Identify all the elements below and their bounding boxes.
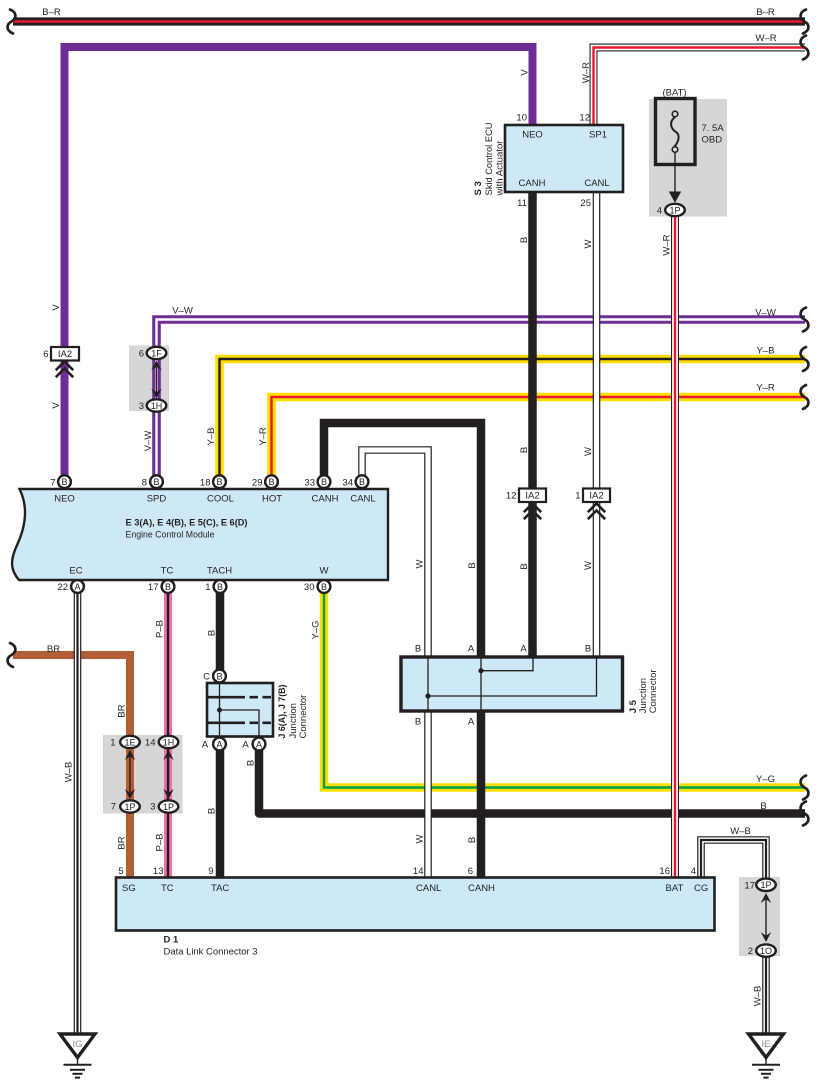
- svg-text:B: B: [61, 477, 67, 487]
- J6 internal bus bar 1: [207, 696, 273, 699]
- arrow between 1H and 1P: [163, 750, 173, 799]
- svg-text:BR: BR: [117, 704, 128, 717]
- ECM pin 1 B circle: [214, 580, 227, 593]
- connector 1H pin 3 oval: [147, 399, 167, 411]
- wire B-R top bus: [13, 17, 805, 25]
- svg-text:18: 18: [200, 478, 211, 489]
- connector IA2 pin 1 chevron: [588, 504, 605, 520]
- svg-text:2: 2: [748, 946, 753, 957]
- break symbol BR left: [8, 643, 16, 667]
- wire W-B from connector 1O to ground IE: [762, 955, 770, 1034]
- svg-text:B: B: [519, 237, 530, 243]
- break symbol B right: [801, 802, 809, 826]
- svg-text:A: A: [216, 739, 222, 749]
- svg-text:BAT: BAT: [666, 883, 684, 894]
- J5 junction dot A: [478, 668, 483, 673]
- svg-text:1: 1: [575, 491, 580, 502]
- svg-text:V–W: V–W: [143, 431, 154, 452]
- svg-text:IA2: IA2: [525, 491, 539, 502]
- svg-text:CANH: CANH: [468, 883, 495, 894]
- arrow between 1E and 1P: [125, 750, 135, 799]
- wire B TACH from ECM pin 1 to J6 pin C and J6 pin A to D1 pin 9: [216, 592, 225, 879]
- svg-text:14: 14: [413, 866, 424, 877]
- svg-text:12: 12: [506, 491, 517, 502]
- svg-text:IA2: IA2: [589, 491, 603, 502]
- svg-text:Connector: Connector: [298, 695, 309, 739]
- svg-text:IG: IG: [72, 1039, 82, 1050]
- svg-text:9: 9: [208, 866, 213, 877]
- wire Y-G from ECM pin 30 W to right edge: [324, 592, 805, 788]
- svg-text:P–B: P–B: [155, 620, 166, 638]
- svg-text:B: B: [415, 644, 421, 655]
- svg-text:30: 30: [304, 582, 315, 593]
- svg-text:4: 4: [691, 866, 696, 877]
- svg-text:B: B: [585, 644, 591, 655]
- svg-text:B: B: [467, 562, 478, 568]
- ECM pin 30 B circle: [318, 580, 331, 593]
- connector 1O pin 2 oval: [756, 944, 776, 956]
- svg-text:IE: IE: [762, 1039, 771, 1050]
- gray panel fuse area: [649, 99, 727, 217]
- gray panel connectors 1P/1O: [739, 877, 780, 956]
- svg-text:W–B: W–B: [730, 826, 751, 837]
- svg-text:1P: 1P: [760, 880, 771, 890]
- svg-text:B: B: [467, 837, 478, 843]
- svg-text:W: W: [583, 447, 594, 456]
- svg-text:11: 11: [517, 198, 527, 209]
- svg-text:D 1: D 1: [164, 935, 180, 946]
- svg-text:B: B: [246, 760, 257, 766]
- fuse 7.5A OBD box: [656, 99, 696, 165]
- break symbol W-R right: [801, 36, 809, 60]
- svg-text:CANL: CANL: [416, 883, 441, 894]
- wire W-B from D1 pin 4 CG to connector 1P: [701, 840, 766, 879]
- gray panel connectors 1E/1H/1P/1P: [103, 735, 183, 814]
- svg-text:B: B: [216, 671, 222, 681]
- junction connector J5 box: [401, 657, 623, 711]
- connector IA2 pin 12 chevron: [524, 504, 541, 520]
- wire B CANH from ECM pin 33 to J5 and D1 pin 6: [324, 423, 481, 879]
- wire W-R from fuse connector 1P to D1 pin 16 BAT: [671, 214, 679, 879]
- break symbol Y-R right: [801, 385, 809, 409]
- wire W-B from ECM pin 22 EC to ground IG: [74, 592, 82, 1034]
- svg-text:10: 10: [516, 113, 527, 124]
- svg-text:B: B: [359, 477, 365, 487]
- Data Link Connector 3 box D1: [116, 878, 715, 931]
- svg-text:OBD: OBD: [702, 135, 723, 146]
- svg-text:B: B: [321, 582, 327, 592]
- svg-text:W–R: W–R: [662, 234, 673, 255]
- svg-text:25: 25: [580, 198, 591, 209]
- J6 pin C B circle: [213, 670, 226, 683]
- svg-text:W: W: [320, 566, 329, 577]
- svg-text:Data Link Connector 3: Data Link Connector 3: [164, 947, 258, 958]
- svg-text:HOT: HOT: [262, 494, 282, 505]
- svg-text:A: A: [468, 717, 475, 728]
- svg-text:1H: 1H: [151, 401, 163, 411]
- break symbol Y-G right: [801, 776, 809, 800]
- svg-text:BR: BR: [117, 836, 128, 849]
- svg-text:12: 12: [579, 113, 590, 124]
- connector IA2 pin 1 box: [583, 489, 610, 503]
- svg-text:Y–G: Y–G: [311, 620, 322, 639]
- svg-text:B: B: [216, 477, 222, 487]
- svg-text:SP1: SP1: [589, 130, 607, 141]
- ECM pin 8 B circle: [150, 475, 163, 488]
- break symbol B-R left: [8, 10, 16, 34]
- svg-text:CG: CG: [694, 883, 708, 894]
- ECM pin 18 B circle: [213, 475, 226, 488]
- wire W CANL from Skid ECU pin 25 to J5: [593, 190, 601, 659]
- connector 1P pin 7 oval: [120, 800, 140, 812]
- svg-text:B: B: [217, 582, 223, 592]
- wire BR from left edge to D1 pin 5 SG: [13, 655, 130, 879]
- svg-text:Y–B: Y–B: [206, 428, 217, 446]
- svg-text:1O: 1O: [760, 946, 772, 956]
- svg-text:CANH: CANH: [312, 494, 339, 505]
- svg-text:33: 33: [304, 478, 315, 489]
- svg-text:Y–G: Y–G: [756, 774, 775, 785]
- svg-text:Connector: Connector: [648, 669, 659, 713]
- svg-text:14: 14: [145, 738, 156, 749]
- J6 internal link C-A: [220, 683, 260, 737]
- svg-text:A: A: [202, 740, 209, 751]
- svg-text:B: B: [207, 630, 218, 636]
- svg-text:A: A: [74, 582, 80, 592]
- connector IA2 pin 6 box: [51, 347, 79, 361]
- svg-text:W: W: [583, 561, 594, 570]
- svg-text:A: A: [468, 644, 475, 655]
- svg-text:6: 6: [139, 349, 144, 360]
- svg-text:V: V: [51, 402, 62, 409]
- wire Y-B from ECM pin 18 COOL to right edge: [220, 359, 806, 476]
- svg-text:B: B: [165, 582, 171, 592]
- svg-text:A: A: [520, 644, 527, 655]
- svg-text:B: B: [268, 477, 274, 487]
- svg-text:W: W: [583, 239, 594, 248]
- svg-text:1E: 1E: [124, 737, 135, 747]
- svg-text:BR: BR: [47, 644, 60, 655]
- wire V from ECM pin 7 NEO to Skid ECU pin 10 NEO: [65, 47, 533, 476]
- svg-text:TAC: TAC: [211, 883, 229, 894]
- ECM pin 7 B circle: [58, 475, 71, 488]
- svg-text:3: 3: [150, 802, 155, 813]
- svg-text:CANL: CANL: [350, 494, 375, 505]
- svg-text:13: 13: [153, 866, 164, 877]
- svg-text:B: B: [321, 477, 327, 487]
- svg-text:IA2: IA2: [58, 349, 72, 360]
- svg-text:with Actuator: with Actuator: [495, 141, 506, 197]
- svg-text:1H: 1H: [163, 737, 175, 747]
- ground IE: [749, 1034, 784, 1078]
- connector IA2 pin 12 box: [519, 489, 546, 503]
- ECM pin 22 A circle: [71, 580, 84, 593]
- svg-text:6: 6: [468, 866, 473, 877]
- svg-text:C: C: [203, 672, 210, 683]
- connector 1P pin 17 oval: [756, 879, 776, 891]
- gray panel connector 1F/1H: [129, 346, 169, 412]
- svg-text:B: B: [153, 477, 159, 487]
- connector 1E pin 1 oval: [120, 736, 140, 748]
- fuse element: [671, 111, 678, 152]
- svg-text:COOL: COOL: [207, 494, 234, 505]
- svg-text:SG: SG: [122, 883, 136, 894]
- svg-text:E 3(A), E 4(B), E 5(C), E 6(D): E 3(A), E 4(B), E 5(C), E 6(D): [126, 518, 248, 529]
- svg-text:Y–R: Y–R: [756, 383, 775, 394]
- svg-text:J 6(A), J 7(B): J 6(A), J 7(B): [277, 685, 288, 739]
- svg-text:7. 5A: 7. 5A: [702, 123, 725, 134]
- svg-text:EC: EC: [69, 566, 82, 577]
- svg-text:1F: 1F: [151, 348, 162, 358]
- arrow between 1F and 1H: [151, 361, 161, 399]
- svg-text:1P: 1P: [163, 802, 174, 812]
- J6 junction dot: [217, 708, 222, 713]
- svg-text:4: 4: [657, 206, 662, 217]
- svg-text:1P: 1P: [124, 802, 135, 812]
- wire B CANH from Skid ECU pin 11 to J5: [528, 190, 537, 659]
- Skid Control ECU box S3: [505, 125, 623, 192]
- wire P-B from ECM pin 17 TC to D1 pin 13: [164, 592, 172, 879]
- svg-text:3: 3: [139, 401, 144, 412]
- svg-text:17: 17: [744, 880, 755, 891]
- J6 pin A circle left: [213, 738, 226, 751]
- svg-text:17: 17: [148, 582, 159, 593]
- svg-text:V–W: V–W: [172, 306, 193, 317]
- svg-text:W: W: [415, 834, 426, 843]
- break symbol V-W right: [801, 308, 809, 332]
- svg-text:W–B: W–B: [64, 762, 75, 783]
- break symbol Y-B right: [801, 347, 809, 371]
- svg-text:P–B: P–B: [155, 834, 166, 852]
- svg-text:SPD: SPD: [147, 494, 167, 505]
- svg-text:B: B: [519, 447, 530, 453]
- ECM pin 29 B circle: [265, 475, 278, 488]
- J5 junction dot B: [425, 693, 430, 698]
- wire B from J6 pin A to right edge: [259, 749, 805, 814]
- svg-text:A: A: [256, 739, 262, 749]
- connector 1F pin 6 oval: [147, 347, 167, 359]
- J5 internal link CANL B-B: [428, 657, 597, 711]
- arrow between 1P and 1O: [761, 893, 771, 942]
- svg-text:(BAT): (BAT): [662, 88, 686, 99]
- wire V-W from ECM pin 8 SPD to right edge: [157, 320, 806, 477]
- J6 internal bus bar 2: [207, 721, 273, 724]
- J6 pin A circle right: [253, 738, 266, 751]
- svg-text:TACH: TACH: [207, 566, 232, 577]
- break symbol B-R right: [801, 10, 809, 34]
- svg-text:S 3: S 3: [473, 181, 484, 195]
- svg-text:5: 5: [118, 866, 123, 877]
- svg-text:TC: TC: [161, 566, 174, 577]
- svg-text:8: 8: [142, 478, 147, 489]
- wire W CANL from ECM pin 34 to J5 and D1 pin 14: [362, 450, 428, 879]
- svg-text:W–R: W–R: [581, 62, 592, 83]
- svg-text:NEO: NEO: [522, 130, 543, 141]
- connector IA2 pin 6 chevron: [56, 362, 73, 378]
- junction connector J6 box: [207, 683, 273, 737]
- svg-text:B: B: [519, 563, 530, 569]
- svg-text:6: 6: [43, 349, 48, 360]
- ground IG: [60, 1034, 95, 1078]
- svg-text:NEO: NEO: [54, 494, 75, 505]
- svg-text:Y–B: Y–B: [757, 346, 775, 357]
- wire Y-R from ECM pin 29 HOT to right edge: [272, 397, 806, 476]
- svg-text:7: 7: [111, 802, 116, 813]
- fuse output line and arrow to 1P: [669, 153, 681, 203]
- svg-text:W–R: W–R: [755, 33, 776, 44]
- svg-text:W: W: [415, 559, 426, 568]
- svg-text:CANH: CANH: [519, 178, 546, 189]
- svg-text:B: B: [760, 801, 766, 812]
- svg-text:CANL: CANL: [584, 178, 609, 189]
- svg-text:1P: 1P: [669, 205, 680, 215]
- svg-text:A: A: [242, 740, 249, 751]
- ECM pin 34 B circle: [356, 475, 369, 488]
- svg-text:Skid Control ECU: Skid Control ECU: [484, 122, 495, 195]
- connector 1H pin 14 oval: [159, 736, 179, 748]
- wire W-R from SP1 pin 12 to top right: [594, 48, 806, 128]
- svg-text:V–W: V–W: [755, 308, 776, 319]
- svg-text:Engine Control Module: Engine Control Module: [126, 530, 215, 541]
- connector 1P pin 3 oval: [159, 800, 179, 812]
- ECM pin 33 B circle: [318, 475, 331, 488]
- svg-text:22: 22: [57, 582, 68, 593]
- svg-text:B–R: B–R: [756, 7, 775, 18]
- svg-text:Y–R: Y–R: [258, 427, 269, 446]
- svg-text:B: B: [207, 808, 218, 814]
- svg-text:B–R: B–R: [42, 7, 61, 18]
- svg-text:1: 1: [205, 582, 210, 593]
- Engine Control Module box E3/E4/E5/E6: [12, 489, 388, 580]
- fuse connector 1P pin 4 oval: [665, 204, 685, 216]
- svg-text:34: 34: [342, 478, 353, 489]
- svg-text:W–B: W–B: [753, 986, 764, 1007]
- svg-text:29: 29: [252, 478, 263, 489]
- svg-text:V: V: [520, 69, 531, 76]
- svg-text:V: V: [51, 304, 62, 311]
- svg-text:B: B: [415, 717, 421, 728]
- J5 internal link CANH A-A: [481, 657, 533, 711]
- svg-text:16: 16: [659, 866, 670, 877]
- svg-text:1: 1: [110, 738, 115, 749]
- svg-text:TC: TC: [161, 883, 174, 894]
- ECM pin 17 B circle: [162, 580, 175, 593]
- svg-text:7: 7: [50, 478, 55, 489]
